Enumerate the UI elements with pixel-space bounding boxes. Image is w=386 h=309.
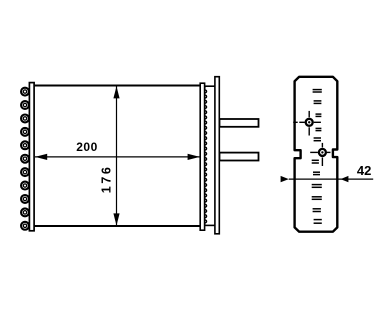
coil fin 3 [21,114,29,122]
fin zigzag strip [205,88,207,226]
coil fin 2 [21,101,29,109]
fin mark 9 [312,197,322,200]
coil fin 11 [21,222,29,230]
coil fin 7 [21,168,29,176]
dimension 176 line [116,86,118,225]
coil fin 1 [21,88,29,96]
fin mark 6 [312,160,319,163]
fin mark 10 [313,209,321,212]
right tank [215,77,219,234]
top connector line [205,85,215,87]
fin mark 4 [316,128,322,130]
pipe port 2 crosshair [310,143,330,166]
coil fin 4 [21,128,29,136]
core top line [34,85,201,87]
dimension 42 right arrow [341,176,349,182]
dimension 200 line [35,156,200,158]
fin mark 2 [314,101,322,104]
outlet pipe [220,153,259,161]
left end plate [29,83,34,231]
inlet pipe [220,119,259,127]
coil fin 6 [21,155,29,163]
edge tick for port 1 [293,121,298,123]
fin mark 1 [313,90,322,92]
dimension 42 left arrow [281,176,289,182]
fin mark 7 [313,172,320,174]
coil fin 10 [21,208,29,216]
svg-text:176: 176 [100,165,114,194]
dimension 176 bottom arrow [113,213,119,225]
right end plate [200,83,204,230]
coil fin 8 [21,182,29,190]
bottom connector line [205,224,215,226]
svg-text:200: 200 [76,140,98,154]
coil fin 5 [21,141,29,149]
coil fin 9 [21,195,29,203]
dimension 42 line [289,178,373,180]
side view outline [295,77,338,232]
pipe port 1 crosshair [299,111,321,136]
dimension 176 top arrow [113,86,119,98]
fin mark 3 [316,114,322,116]
fin mark 8 [312,185,322,188]
dimension 200 left arrow [35,154,47,160]
core bottom line [34,225,201,227]
fin mark 11 [314,220,322,224]
fin mark 5 [314,138,321,141]
svg-text:42: 42 [357,163,371,178]
dimension 200 right arrow [188,154,200,160]
